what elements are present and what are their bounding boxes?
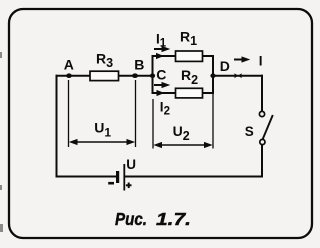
svg-text:1.7.: 1.7. xyxy=(156,209,191,229)
svg-text:C: C xyxy=(156,67,166,83)
svg-text:A: A xyxy=(64,56,74,72)
svg-text:Рис.: Рис. xyxy=(115,209,147,229)
svg-text:U: U xyxy=(126,157,136,172)
svg-text:S: S xyxy=(245,124,254,139)
svg-text:B: B xyxy=(134,56,144,72)
svg-text:I: I xyxy=(259,54,263,69)
svg-text:D: D xyxy=(220,58,230,74)
